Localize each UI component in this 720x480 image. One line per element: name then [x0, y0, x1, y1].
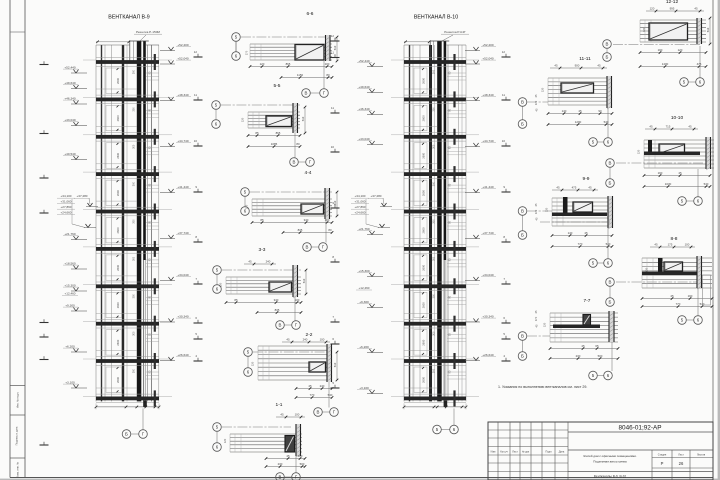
- svg-text:+43,040: +43,040: [358, 137, 370, 141]
- svg-text:300: 300: [433, 368, 436, 373]
- svg-text:300: 300: [433, 294, 436, 299]
- svg-text:В: В: [279, 323, 282, 328]
- svg-text:2600: 2600: [116, 115, 120, 121]
- svg-text:В: В: [521, 334, 524, 339]
- svg-text:+15,300: +15,300: [358, 269, 370, 273]
- svg-text:№ док: № док: [522, 451, 530, 454]
- svg-text:Дата: Дата: [559, 451, 565, 454]
- svg-text:В: В: [306, 245, 309, 250]
- svg-text:45: 45: [554, 63, 558, 67]
- svg-text:45: 45: [654, 242, 658, 246]
- svg-text:+30,340: +30,340: [177, 314, 189, 318]
- svg-text:80: 80: [296, 142, 300, 146]
- svg-text:2600: 2600: [422, 377, 426, 383]
- svg-text:45: 45: [670, 294, 674, 298]
- svg-text:2600: 2600: [422, 264, 426, 270]
- svg-text:45: 45: [286, 337, 290, 341]
- svg-text:+37,740: +37,740: [177, 231, 189, 235]
- svg-text:2600: 2600: [422, 227, 426, 233]
- svg-text:300: 300: [132, 144, 135, 149]
- svg-text:120: 120: [650, 6, 655, 10]
- svg-text:2600: 2600: [116, 339, 120, 345]
- svg-text:12-12: 12-12: [666, 0, 679, 5]
- svg-text:+9,300: +9,300: [65, 303, 75, 307]
- svg-text:2600: 2600: [422, 302, 426, 308]
- svg-text:500: 500: [300, 462, 305, 466]
- svg-text:45: 45: [581, 344, 585, 348]
- svg-text:Жилой дом с офисными помещения: Жилой дом с офисными помещениями.: [583, 454, 637, 458]
- svg-text:В: В: [521, 209, 524, 214]
- svg-text:300: 300: [132, 294, 135, 299]
- svg-text:120: 120: [543, 322, 547, 327]
- svg-text:+48,340: +48,340: [177, 93, 189, 97]
- svg-text:240: 240: [266, 259, 271, 263]
- svg-text:+26,640: +26,640: [177, 353, 189, 357]
- svg-text:1. Указания по выполнению вент: 1. Указания по выполнению вентканалов см…: [498, 385, 587, 389]
- svg-text:11: 11: [194, 93, 197, 97]
- svg-text:2600: 2600: [422, 115, 426, 121]
- svg-text:+46,340: +46,340: [64, 96, 76, 100]
- svg-text:+37,280: +37,280: [371, 194, 382, 198]
- svg-text:270: 270: [245, 50, 249, 55]
- svg-text:11: 11: [331, 50, 334, 54]
- svg-text:120: 120: [219, 282, 223, 287]
- svg-text:+41,440: +41,440: [177, 185, 189, 189]
- svg-text:45: 45: [584, 231, 588, 235]
- svg-text:140: 140: [568, 231, 573, 235]
- svg-text:120: 120: [541, 87, 545, 92]
- svg-text:+18,560: +18,560: [64, 261, 76, 265]
- svg-text:540: 540: [328, 393, 333, 397]
- svg-text:2600: 2600: [422, 78, 426, 84]
- svg-text:+34,100: +34,100: [355, 194, 366, 198]
- svg-text:340: 340: [274, 298, 279, 302]
- svg-text:230: 230: [278, 462, 283, 466]
- svg-text:Б: Б: [606, 55, 609, 60]
- svg-text:Инв. № подл.: Инв. № подл.: [16, 392, 20, 408]
- svg-text:300: 300: [132, 368, 135, 373]
- svg-text:300: 300: [433, 331, 436, 336]
- svg-text:100: 100: [685, 242, 690, 246]
- svg-text:9-9: 9-9: [583, 176, 590, 182]
- svg-text:10-10: 10-10: [671, 115, 684, 121]
- svg-text:500: 500: [598, 354, 603, 358]
- svg-text:45: 45: [694, 6, 698, 10]
- svg-text:+31,060: +31,060: [355, 200, 366, 204]
- svg-text:В: В: [305, 91, 308, 96]
- svg-text:370: 370: [534, 100, 538, 105]
- svg-text:300: 300: [132, 256, 135, 261]
- svg-text:120: 120: [223, 438, 227, 443]
- svg-text:Изм: Изм: [491, 451, 496, 454]
- svg-text:2600: 2600: [116, 78, 120, 84]
- svg-text:+49,640: +49,640: [358, 85, 370, 89]
- svg-text:85: 85: [255, 131, 259, 135]
- svg-text:26: 26: [679, 461, 684, 466]
- svg-text:240: 240: [320, 384, 325, 388]
- svg-text:865: 865: [286, 62, 291, 66]
- svg-text:45: 45: [286, 454, 290, 458]
- svg-text:100: 100: [325, 218, 330, 222]
- svg-text:Подп: Подп: [546, 451, 553, 454]
- svg-text:Вентканалы В-9, В-10: Вентканалы В-9, В-10: [594, 475, 627, 479]
- svg-text:8046-01;92-АР: 8046-01;92-АР: [619, 425, 662, 432]
- svg-text:ВЕНТКАНАЛ В-10: ВЕНТКАНАЛ В-10: [414, 15, 458, 21]
- svg-text:190: 190: [658, 48, 663, 52]
- svg-text:140: 140: [562, 109, 567, 113]
- svg-text:85: 85: [234, 298, 238, 302]
- svg-text:+26,640: +26,640: [482, 353, 494, 357]
- svg-text:995: 995: [670, 6, 675, 10]
- svg-text:2600: 2600: [116, 190, 120, 196]
- svg-text:12: 12: [502, 50, 506, 54]
- svg-text:+37,280: +37,280: [77, 194, 88, 198]
- svg-text:510: 510: [301, 116, 305, 121]
- svg-text:510: 510: [302, 278, 306, 283]
- svg-text:300: 300: [132, 69, 135, 74]
- svg-text:300: 300: [132, 331, 135, 336]
- svg-text:300: 300: [132, 107, 135, 112]
- svg-text:45: 45: [308, 384, 312, 388]
- svg-text:В: В: [609, 280, 612, 285]
- svg-text:12: 12: [194, 50, 198, 54]
- svg-text:В: В: [317, 410, 320, 415]
- svg-text:7-7: 7-7: [584, 298, 591, 304]
- svg-text:+52,440: +52,440: [358, 59, 370, 63]
- svg-text:11-11: 11-11: [579, 56, 591, 62]
- svg-text:+34,100: +34,100: [61, 194, 72, 198]
- svg-text:120: 120: [642, 27, 646, 32]
- svg-text:45: 45: [588, 185, 592, 189]
- svg-text:Б: Б: [521, 354, 524, 359]
- svg-text:120: 120: [245, 204, 249, 209]
- svg-text:2600: 2600: [116, 227, 120, 233]
- svg-text:+34,040: +34,040: [177, 273, 189, 277]
- svg-text:45: 45: [248, 259, 252, 263]
- svg-text:4-4: 4-4: [305, 170, 312, 176]
- svg-text:370: 370: [534, 316, 538, 321]
- svg-text:45: 45: [556, 185, 560, 189]
- svg-text:475: 475: [572, 185, 577, 189]
- svg-text:45: 45: [688, 124, 692, 128]
- svg-text:120: 120: [678, 48, 683, 52]
- svg-text:65: 65: [595, 344, 599, 348]
- svg-text:Б: Б: [521, 122, 524, 127]
- svg-text:2600: 2600: [422, 339, 426, 345]
- svg-text:120: 120: [251, 361, 255, 366]
- svg-text:+44,740: +44,740: [177, 139, 189, 143]
- svg-text:300: 300: [433, 181, 436, 186]
- svg-text:+27,860: +27,860: [61, 205, 72, 209]
- svg-text:+52,040: +52,040: [482, 56, 494, 60]
- svg-text:1150: 1150: [297, 73, 304, 77]
- svg-text:80: 80: [326, 73, 330, 77]
- svg-text:+12,460: +12,460: [65, 292, 76, 296]
- svg-text:240: 240: [303, 337, 308, 341]
- svg-text:Б: Б: [609, 300, 612, 305]
- svg-text:540: 540: [704, 182, 709, 186]
- svg-text:+21,760: +21,760: [358, 227, 370, 231]
- svg-text:120: 120: [545, 207, 549, 212]
- svg-text:+3,100: +3,100: [65, 380, 75, 384]
- svg-text:+30,340: +30,340: [482, 314, 494, 318]
- svg-text:2600: 2600: [116, 264, 120, 270]
- svg-text:+24,660: +24,660: [61, 211, 72, 215]
- svg-text:100: 100: [298, 454, 303, 458]
- svg-text:2600: 2600: [116, 302, 120, 308]
- svg-text:1290: 1290: [575, 120, 582, 124]
- svg-text:300: 300: [433, 219, 436, 224]
- svg-text:770: 770: [310, 393, 315, 397]
- svg-text:+6,200: +6,200: [65, 344, 75, 348]
- svg-text:В: В: [606, 42, 609, 47]
- svg-text:Б: Б: [609, 181, 612, 186]
- svg-text:1400: 1400: [662, 62, 669, 66]
- svg-text:Подземная автостоянка: Подземная автостоянка: [593, 460, 627, 464]
- svg-text:2600: 2600: [116, 152, 120, 158]
- svg-text:1085: 1085: [271, 142, 278, 146]
- svg-text:11: 11: [502, 93, 505, 97]
- svg-text:В: В: [279, 475, 282, 480]
- svg-text:Р: Р: [661, 461, 664, 466]
- svg-text:1030: 1030: [665, 182, 672, 186]
- svg-text:Подпись и дата: Подпись и дата: [15, 426, 19, 445]
- svg-text:120: 120: [260, 62, 265, 66]
- svg-text:+49,640: +49,640: [64, 81, 76, 85]
- svg-text:45: 45: [678, 171, 682, 175]
- svg-text:475: 475: [697, 62, 702, 66]
- svg-text:90: 90: [598, 109, 602, 113]
- svg-text:45: 45: [597, 63, 601, 67]
- svg-text:+6,200: +6,200: [359, 345, 369, 349]
- svg-text:715: 715: [666, 124, 671, 128]
- svg-text:80: 80: [328, 228, 332, 232]
- svg-text:+12,460: +12,460: [359, 286, 370, 290]
- svg-text:2600: 2600: [422, 152, 426, 158]
- svg-text:+37,740: +37,740: [482, 231, 494, 235]
- svg-text:Взам. инв. №: Взам. инв. №: [16, 462, 20, 478]
- svg-text:+9,300: +9,300: [359, 300, 369, 304]
- svg-text:Кол.уч: Кол.уч: [500, 451, 508, 454]
- svg-text:865: 865: [276, 131, 281, 135]
- svg-text:45: 45: [578, 109, 582, 113]
- svg-text:+52,440: +52,440: [64, 65, 76, 69]
- svg-text:12: 12: [331, 34, 335, 38]
- svg-text:Б: Б: [125, 432, 128, 437]
- svg-text:+3,100: +3,100: [359, 386, 369, 390]
- svg-text:+48,340: +48,340: [482, 93, 494, 97]
- svg-text:10: 10: [194, 139, 198, 143]
- svg-text:В: В: [609, 161, 612, 166]
- svg-text:+46,340: +46,340: [358, 107, 370, 111]
- svg-text:300: 300: [433, 256, 436, 261]
- svg-text:6-6: 6-6: [307, 11, 314, 17]
- svg-text:+41,440: +41,440: [482, 185, 494, 189]
- svg-text:100: 100: [325, 62, 330, 66]
- svg-text:+43,040: +43,040: [64, 118, 76, 122]
- svg-text:+52,040: +52,040: [177, 56, 189, 60]
- svg-text:В: В: [521, 100, 524, 105]
- svg-text:+15,300: +15,300: [64, 283, 76, 287]
- svg-text:1-1: 1-1: [276, 402, 283, 408]
- svg-text:2600: 2600: [422, 190, 426, 196]
- svg-text:770: 770: [578, 242, 583, 246]
- svg-text:Лист: Лист: [512, 451, 518, 454]
- svg-text:+52,200: +52,200: [177, 43, 189, 47]
- svg-text:175: 175: [668, 242, 673, 246]
- svg-text:835: 835: [275, 308, 280, 312]
- svg-text:+34,040: +34,040: [482, 273, 494, 277]
- svg-text:510: 510: [333, 362, 337, 367]
- svg-text:5-5: 5-5: [274, 83, 281, 89]
- svg-text:540: 540: [700, 302, 705, 306]
- svg-text:300: 300: [132, 181, 135, 186]
- svg-text:Решетка Р-К4Г: Решетка Р-К4Г: [444, 30, 466, 34]
- svg-text:370: 370: [534, 209, 538, 214]
- svg-text:+31,060: +31,060: [61, 200, 72, 204]
- svg-text:835: 835: [298, 228, 303, 232]
- svg-text:+24,660: +24,660: [355, 211, 366, 215]
- svg-text:Листов: Листов: [697, 453, 706, 456]
- svg-text:+27,860: +27,860: [355, 205, 366, 209]
- svg-text:+40,540: +40,540: [64, 152, 76, 156]
- svg-text:8-8: 8-8: [671, 236, 678, 242]
- svg-text:100: 100: [295, 298, 300, 302]
- svg-text:3-3: 3-3: [259, 247, 266, 253]
- svg-text:120: 120: [241, 117, 245, 122]
- svg-text:510: 510: [706, 27, 710, 32]
- svg-text:120: 120: [637, 149, 641, 154]
- svg-text:190: 190: [688, 294, 693, 298]
- svg-text:85: 85: [260, 218, 264, 222]
- svg-text:+44,740: +44,740: [482, 139, 494, 143]
- svg-text:Стадия: Стадия: [658, 453, 667, 456]
- svg-text:Б: Б: [521, 233, 524, 238]
- svg-text:100: 100: [295, 412, 300, 416]
- svg-text:ВЕНТКАНАЛ В-9: ВЕНТКАНАЛ В-9: [108, 15, 149, 21]
- svg-text:2600: 2600: [116, 377, 120, 383]
- svg-text:100: 100: [320, 337, 325, 341]
- svg-text:45: 45: [649, 124, 653, 128]
- svg-text:11: 11: [331, 106, 334, 110]
- svg-text:10: 10: [331, 145, 335, 149]
- svg-text:770: 770: [676, 302, 681, 306]
- svg-text:Решетка Р-150М: Решетка Р-150М: [136, 30, 160, 34]
- svg-text:300: 300: [132, 219, 135, 224]
- svg-text:+21,760: +21,760: [64, 232, 76, 236]
- svg-text:Лист: Лист: [678, 453, 684, 456]
- svg-text:300: 300: [433, 107, 436, 112]
- svg-text:300: 300: [433, 144, 436, 149]
- svg-text:45: 45: [280, 412, 284, 416]
- svg-text:190: 190: [658, 171, 663, 175]
- svg-text:10: 10: [502, 139, 506, 143]
- svg-text:В: В: [293, 160, 296, 165]
- svg-text:340: 340: [304, 218, 309, 222]
- svg-text:+52,200: +52,200: [482, 43, 494, 47]
- svg-text:230: 230: [576, 354, 581, 358]
- svg-text:120: 120: [645, 267, 649, 272]
- svg-text:900: 900: [575, 63, 580, 67]
- svg-text:300: 300: [433, 69, 436, 74]
